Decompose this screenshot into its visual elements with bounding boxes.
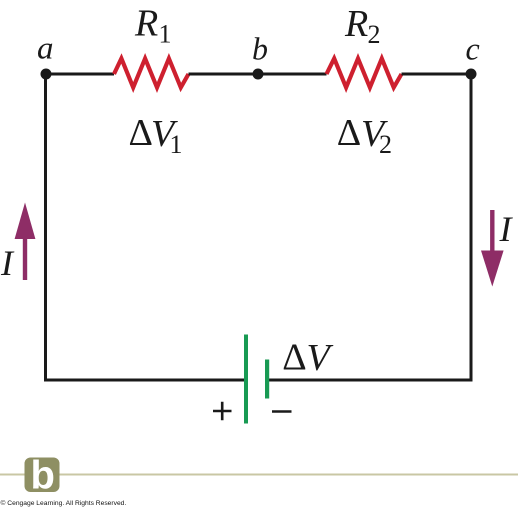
label node c: [466, 31, 480, 67]
svg-text:R: R: [344, 3, 368, 45]
svg-text:b: b: [31, 454, 55, 498]
wire: right side: [470, 73, 473, 382]
svg-text:Δ: Δ: [337, 112, 361, 154]
label node b: [252, 31, 268, 67]
svg-text:1: 1: [159, 20, 172, 49]
svg-text:Δ: Δ: [282, 337, 306, 379]
svg-text:2: 2: [368, 20, 381, 49]
node c: [466, 69, 477, 80]
panel b badge: [25, 454, 60, 498]
svg-text:Δ: Δ: [129, 112, 153, 154]
svg-text:I: I: [499, 209, 514, 249]
label deltaV1: [129, 112, 183, 159]
label R1: [134, 2, 172, 48]
wire: top segment R2 to node c: [402, 73, 472, 76]
wire: top segment R1 to R2 through node b: [189, 73, 327, 76]
label deltaV battery: [282, 337, 333, 379]
svg-text:© Cengage Learning. All Rights: © Cengage Learning. All Rights Reserved.: [1, 499, 127, 507]
battery plus sign: [213, 402, 232, 421]
wire: bottom right segment from battery: [269, 379, 473, 382]
label node a: [37, 30, 54, 66]
battery minus sign: [272, 410, 292, 413]
svg-text:R: R: [134, 2, 158, 44]
label I left: [0, 243, 15, 283]
copyright: [1, 499, 127, 507]
battery long plate (positive): [244, 335, 248, 424]
label deltaV2: [337, 112, 392, 159]
svg-text:V: V: [307, 337, 334, 379]
svg-text:a: a: [37, 30, 54, 66]
panel divider line: [0, 474, 518, 476]
svg-text:c: c: [466, 31, 480, 67]
svg-text:1: 1: [170, 130, 183, 159]
node a: [41, 69, 52, 80]
label I right: [499, 209, 514, 249]
svg-text:I: I: [0, 243, 15, 283]
wire: bottom left segment to battery: [44, 379, 244, 382]
current arrow up (left): [15, 203, 36, 281]
node b: [253, 69, 264, 80]
wire: top segment node a to R1: [46, 73, 114, 76]
label R2: [344, 3, 381, 49]
wire: left side: [44, 73, 47, 382]
resistor R1: [114, 59, 189, 88]
resistor R2: [327, 59, 402, 88]
current arrow down (right): [481, 210, 504, 287]
svg-text:2: 2: [379, 130, 392, 159]
svg-text:b: b: [252, 31, 268, 67]
battery short plate (negative): [265, 360, 269, 399]
